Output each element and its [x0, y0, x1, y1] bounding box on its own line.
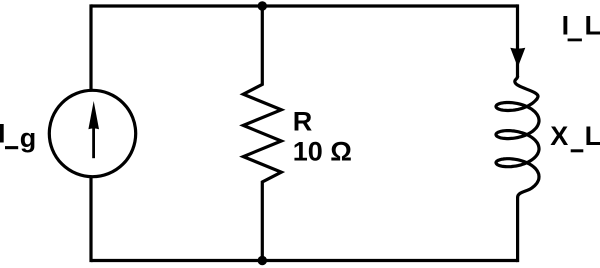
svg-text:10 Ω: 10 Ω: [293, 137, 352, 167]
wire right rail lower lead: [516, 197, 519, 262]
inductor L1 coil: [496, 76, 539, 198]
wire bottom rail: [91, 259, 518, 262]
wire left rail lower: [89, 176, 92, 262]
label I_L underscore: [568, 39, 582, 42]
current source arrow head: [88, 101, 99, 129]
label I_g underscore: [5, 146, 18, 149]
wire left rail upper: [89, 4, 92, 90]
svg-text:I: I: [562, 10, 570, 40]
current arrow I_L head: [510, 48, 525, 68]
svg-text:X: X: [550, 121, 568, 151]
svg-text:I: I: [0, 119, 6, 149]
label X_L underscore: [571, 149, 584, 152]
svg-text:L: L: [585, 10, 600, 40]
wire right rail upper lead: [516, 4, 519, 77]
current source arrow shaft: [92, 126, 95, 158]
svg-text:L: L: [585, 121, 600, 151]
junction node dot bottom: [258, 256, 267, 265]
current source I1 circle: [49, 90, 135, 176]
junction node dot top: [258, 1, 267, 10]
resistor R1 zigzag with leads: [243, 4, 281, 262]
wire top rail: [91, 4, 518, 7]
svg-text:g: g: [20, 123, 37, 153]
svg-text:R: R: [293, 107, 313, 137]
